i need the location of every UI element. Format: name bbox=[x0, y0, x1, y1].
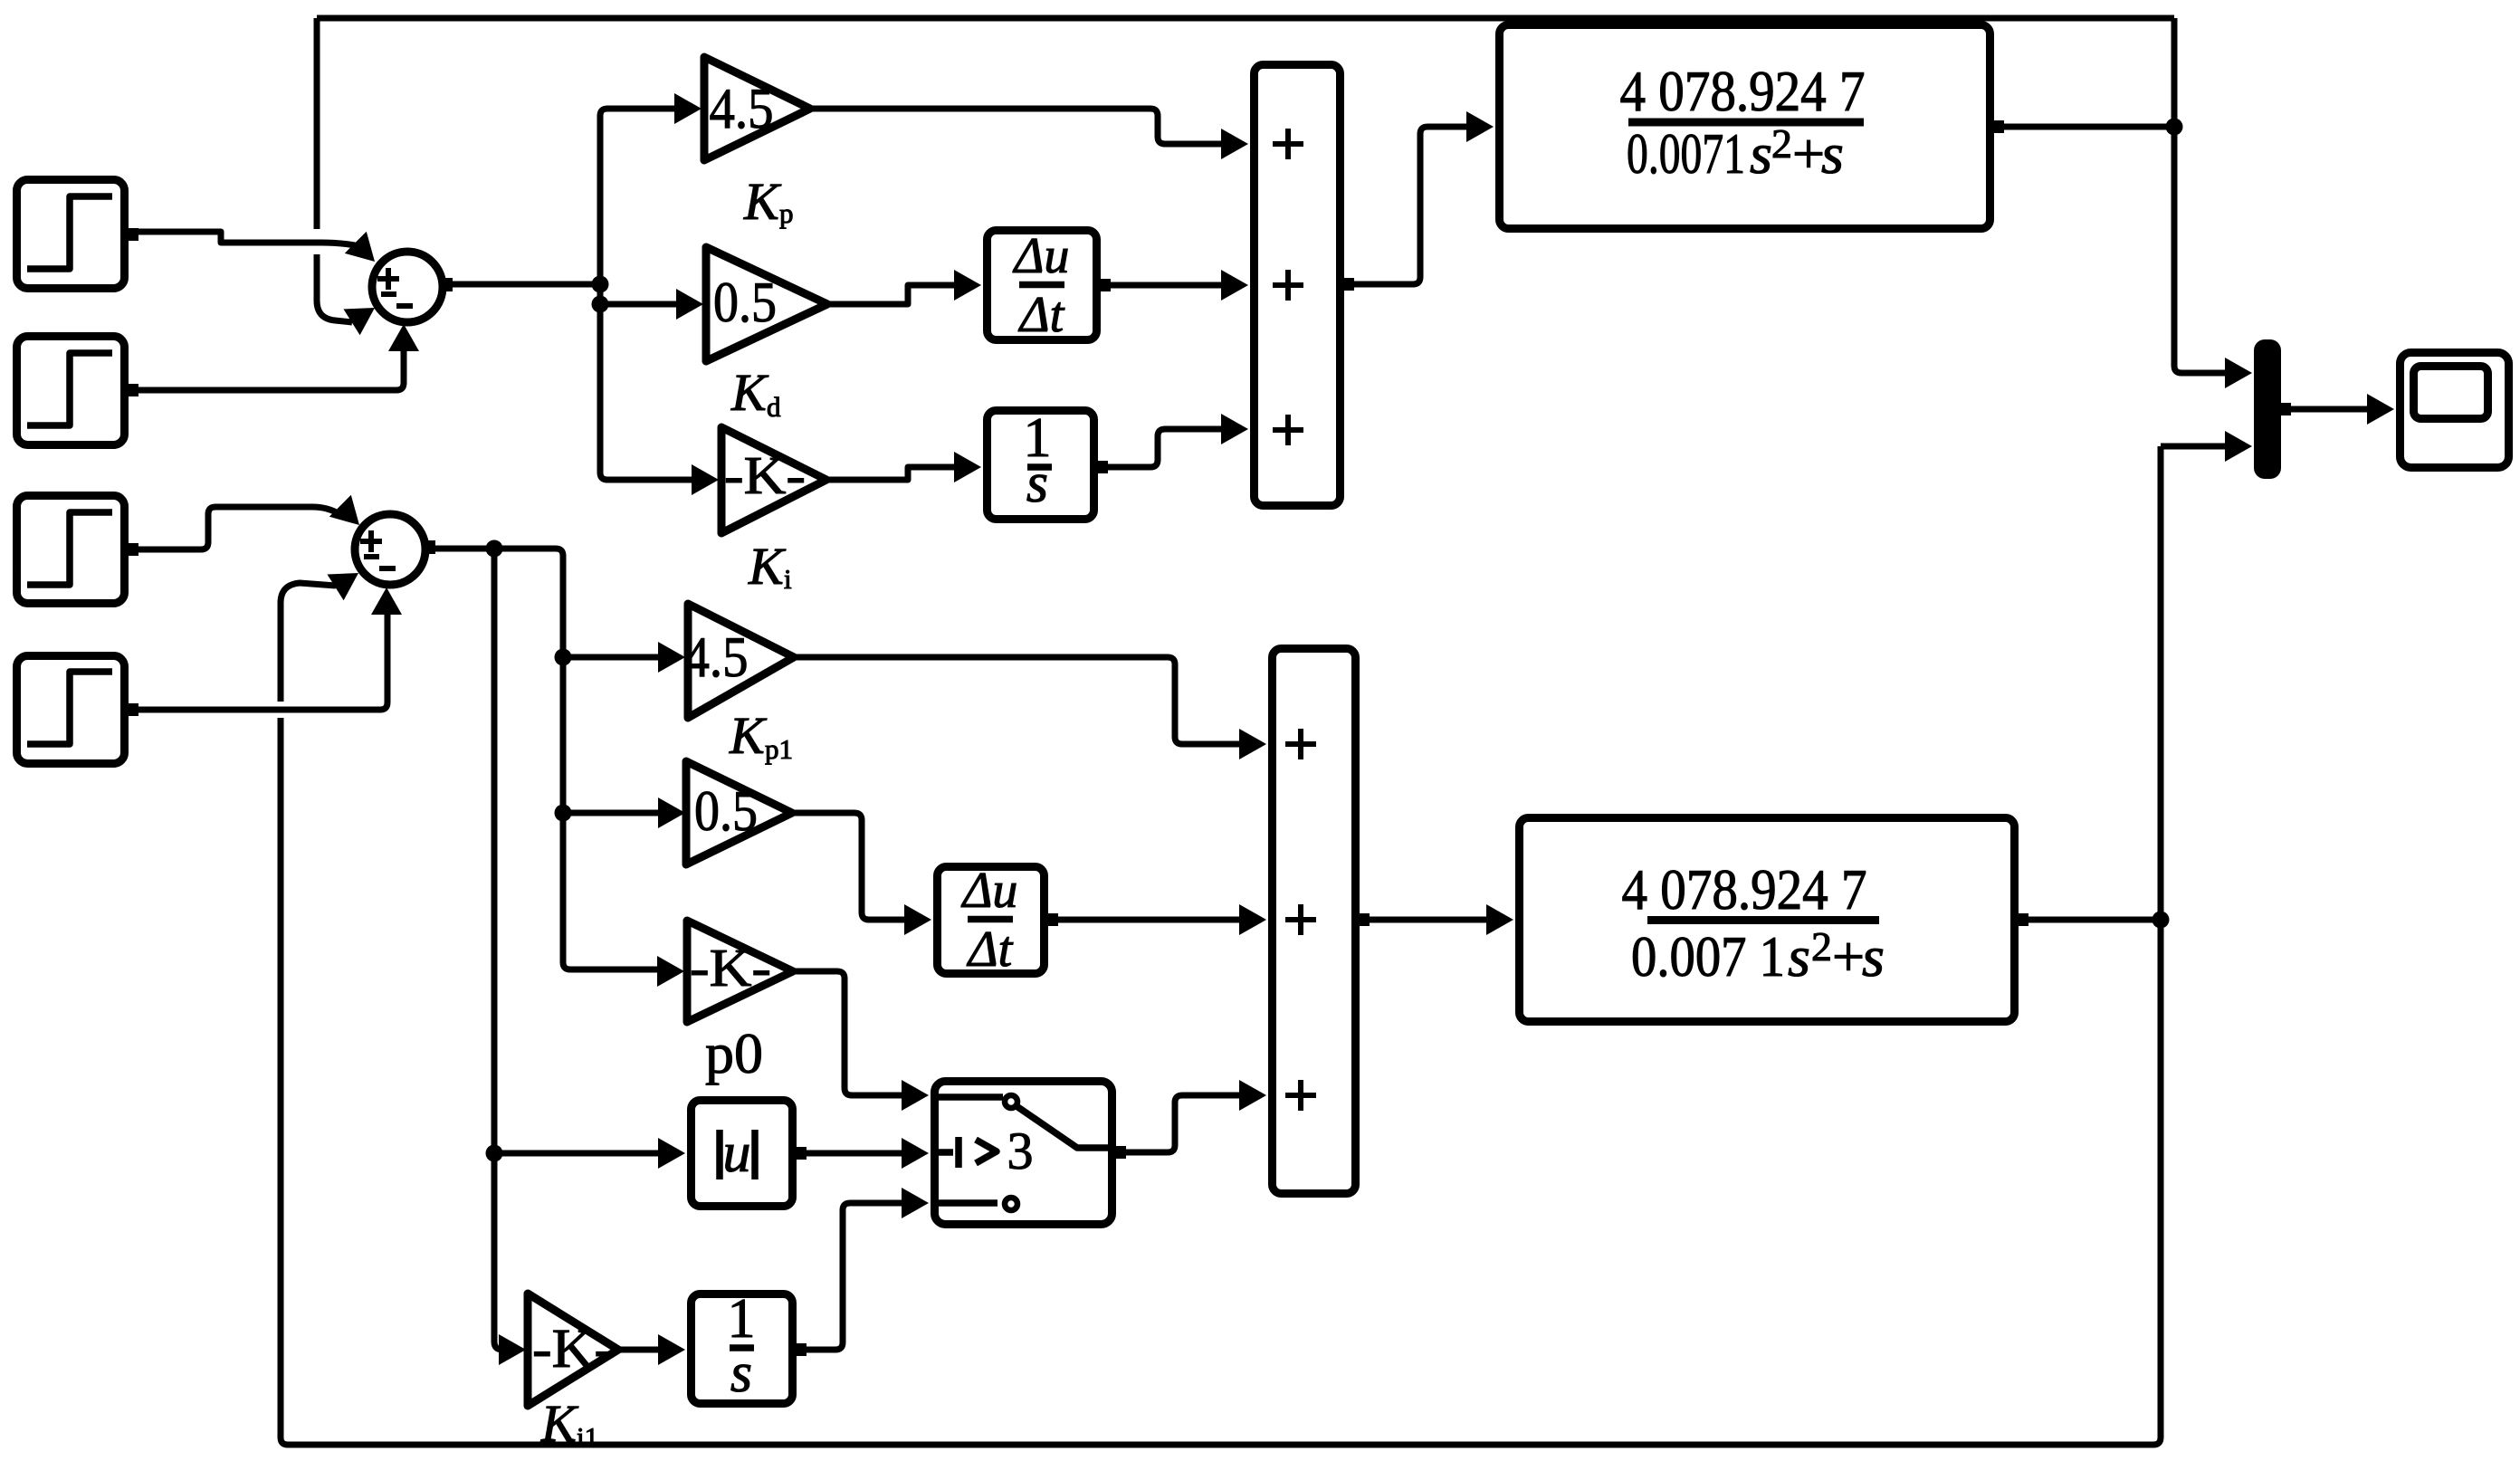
svg-text:K: K bbox=[540, 1394, 579, 1453]
svg-text:4 078.924 7: 4 078.924 7 bbox=[1620, 59, 1866, 123]
svg-text:s: s bbox=[1026, 453, 1048, 514]
svg-text:s: s bbox=[1821, 121, 1844, 186]
svg-text:K: K bbox=[748, 537, 787, 596]
svg-text:2: 2 bbox=[1811, 923, 1832, 969]
svg-text:K: K bbox=[729, 706, 768, 765]
svg-text:s: s bbox=[1750, 121, 1772, 186]
svg-text:s: s bbox=[730, 1342, 752, 1404]
svg-text:0.007 1: 0.007 1 bbox=[1631, 924, 1785, 988]
svg-text:4.5: 4.5 bbox=[684, 625, 749, 689]
svg-text:Δu: Δu bbox=[1013, 228, 1070, 284]
svg-text:0.5: 0.5 bbox=[713, 271, 777, 334]
svg-text:p1: p1 bbox=[765, 733, 793, 765]
svg-text:d: d bbox=[767, 391, 781, 423]
svg-text:i: i bbox=[784, 563, 792, 595]
svg-text:i1: i1 bbox=[577, 1421, 598, 1453]
svg-text:0.5: 0.5 bbox=[694, 779, 758, 843]
svg-text:0.0071: 0.0071 bbox=[1627, 121, 1745, 186]
svg-text:+: + bbox=[1792, 121, 1825, 186]
svg-text:p: p bbox=[779, 197, 794, 229]
svg-text:Δt: Δt bbox=[1018, 287, 1065, 343]
svg-text:K: K bbox=[743, 172, 782, 231]
svg-text:p0: p0 bbox=[705, 1021, 763, 1085]
svg-text:3: 3 bbox=[1007, 1122, 1034, 1180]
svg-text:Δu: Δu bbox=[961, 863, 1018, 919]
svg-text:4.5: 4.5 bbox=[710, 76, 774, 140]
svg-text:1: 1 bbox=[728, 1288, 756, 1350]
svg-text:-K-: -K- bbox=[532, 1319, 614, 1380]
svg-text:u: u bbox=[723, 1122, 751, 1184]
svg-text:2: 2 bbox=[1771, 120, 1792, 167]
svg-text:s: s bbox=[1788, 924, 1810, 988]
svg-text:-K-: -K- bbox=[690, 938, 771, 998]
svg-text:+: + bbox=[1832, 924, 1865, 988]
svg-text:-K-: -K- bbox=[724, 445, 806, 505]
svg-text:Δt: Δt bbox=[967, 921, 1014, 978]
svg-text:s: s bbox=[1862, 924, 1885, 988]
svg-text:4 078.924 7: 4 078.924 7 bbox=[1622, 857, 1867, 921]
svg-text:K: K bbox=[730, 363, 769, 422]
